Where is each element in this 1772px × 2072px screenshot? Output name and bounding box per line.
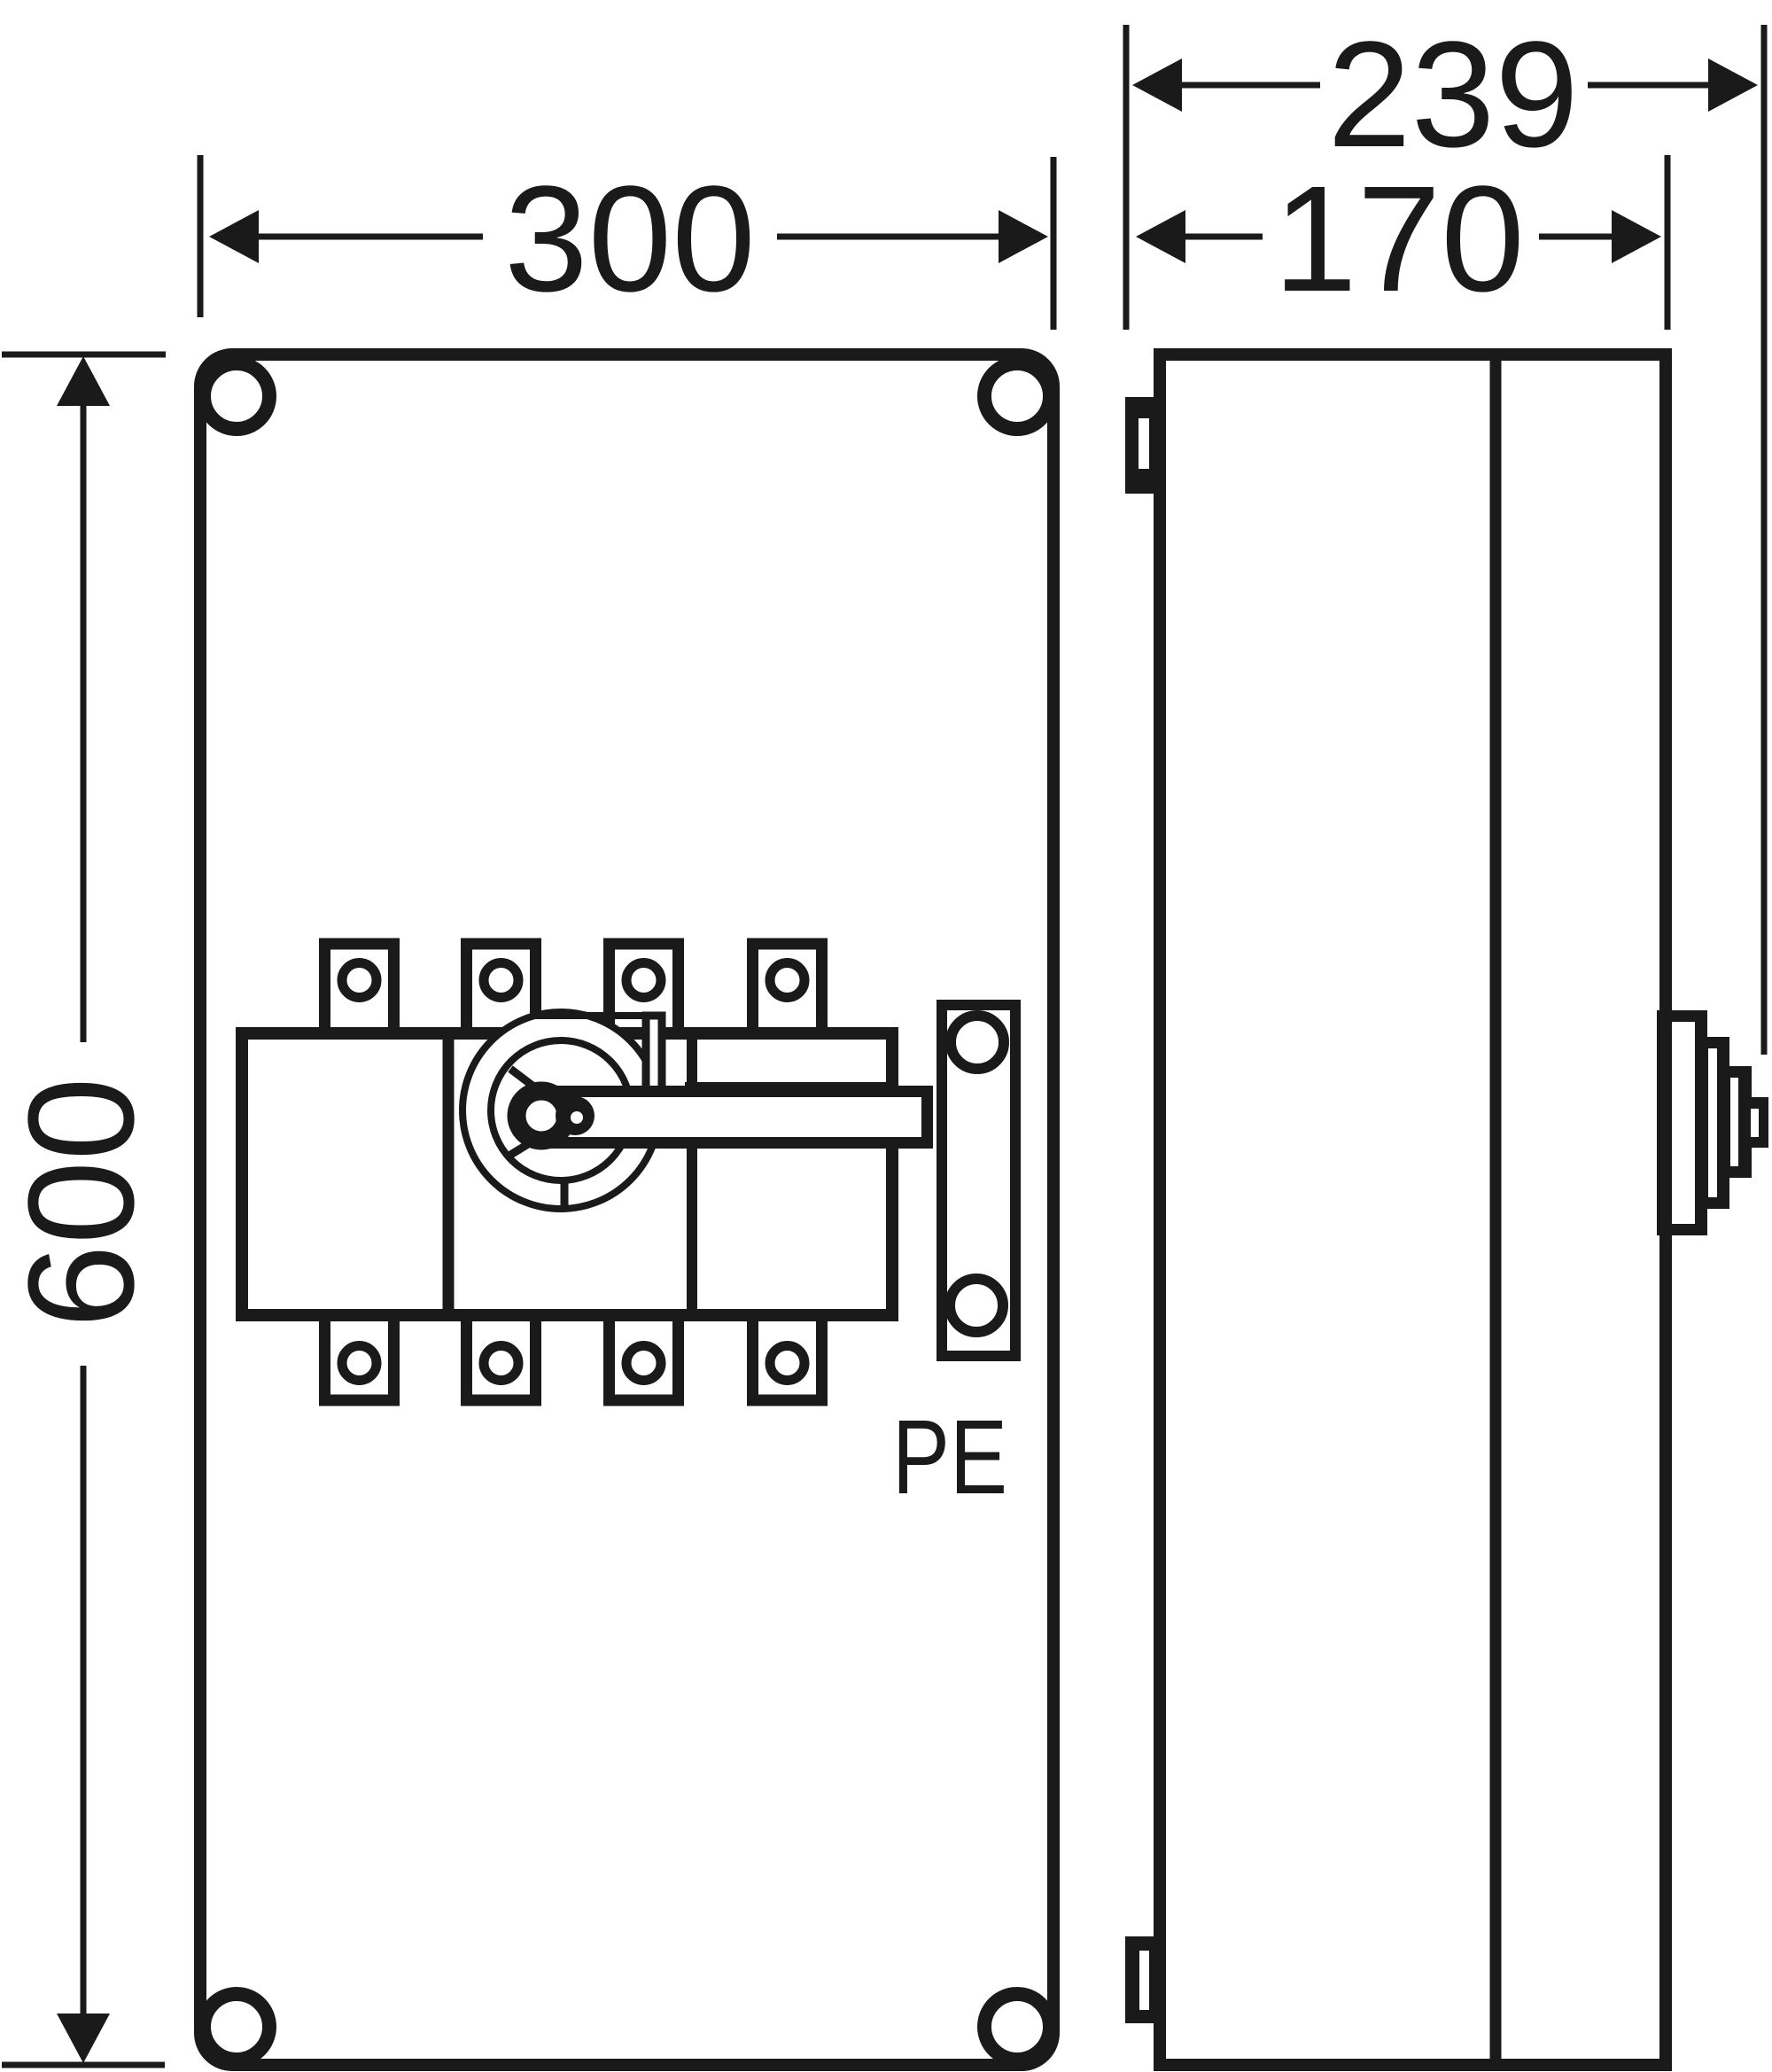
handle shaft step 2: [1695, 1037, 1729, 1209]
enclosure side view outline: [1160, 354, 1666, 2065]
dimension 239 right extension / wall line: [1761, 25, 1768, 1055]
dimension 239 left extension line: [1123, 25, 1130, 330]
terminal hole top 4: [770, 963, 804, 998]
dimension 300 line left segment: [255, 234, 483, 240]
dimension 600 line upper segment: [81, 401, 87, 1042]
switch terminal tab bottom 1: [325, 1315, 394, 1400]
svg-text:300: 300: [504, 155, 756, 323]
terminal hole bottom 3: [626, 1346, 661, 1381]
side view hinge bottom: [1125, 1936, 1160, 2023]
handle pointer rectangle: [646, 1016, 662, 1090]
dimension 300 left extension line: [198, 155, 204, 317]
terminal hole bottom 1: [342, 1346, 377, 1381]
handle sector line lower: [508, 1127, 556, 1157]
terminal hole bottom 4: [770, 1346, 804, 1381]
switch terminal tab top 1: [325, 944, 394, 1033]
svg-text:600: 600: [0, 1077, 166, 1328]
handle shaft step 1: [1657, 1010, 1707, 1235]
switch terminal tab bottom 2: [467, 1315, 536, 1400]
handle lever bar: [549, 1092, 928, 1143]
corner screw bottom-left: [204, 1994, 269, 2060]
svg-text:239: 239: [1327, 11, 1579, 179]
svg-text:PE: PE: [892, 1398, 1007, 1516]
switch terminal tab bottom 4: [753, 1315, 822, 1400]
handle bottom tick: [561, 1179, 569, 1211]
corner screw bottom-right: [984, 1994, 1050, 2060]
dimension 600 bottom extension line: [2, 2062, 165, 2068]
terminal hole top 3: [626, 963, 661, 998]
switch terminal tab top 4: [753, 944, 822, 1033]
side view hinge bottom slot: [1139, 1951, 1149, 2010]
PE terminal hole top: [951, 1016, 1004, 1069]
PE terminal hole bottom: [950, 1279, 1003, 1332]
dimension 170 line left segment: [1184, 234, 1263, 240]
rotary handle outer circle: [462, 1012, 659, 1209]
side view hinge top: [1125, 397, 1160, 494]
terminal hole top 1: [342, 963, 377, 998]
dimension 170 arrow right: [1612, 210, 1661, 263]
switch body strip line: [685, 1082, 892, 1093]
dimension 239 arrow left: [1132, 58, 1182, 112]
handle shaft step 4: [1745, 1097, 1768, 1148]
corner screw top-left: [204, 363, 269, 429]
svg-text:170: 170: [1273, 155, 1525, 323]
switch terminal tab bottom 3: [610, 1315, 679, 1400]
dimension 170 right extension line: [1665, 155, 1671, 330]
switch terminal tab top 2: [467, 944, 536, 1033]
dimension 600 line lower segment: [81, 1366, 87, 2019]
dimension 239 line left segment: [1178, 82, 1320, 89]
handle pivot dot: [556, 1096, 595, 1135]
dimension 600 arrow down: [57, 2014, 110, 2063]
handle sector line upper: [510, 1069, 558, 1105]
PE terminal block: [942, 1005, 1015, 1356]
terminal hole top 2: [484, 963, 518, 998]
side view door inner line: [1490, 361, 1502, 2059]
dimension 300 arrow left: [209, 210, 259, 263]
switch terminal tab top 3: [610, 944, 679, 1033]
switch body divider left: [443, 1040, 455, 1309]
dimension 600 arrow up: [57, 356, 110, 406]
handle pivot pinhole: [571, 1111, 583, 1124]
dimension 170 arrow left: [1136, 210, 1185, 263]
dimension 170 line right segment: [1539, 234, 1612, 240]
handle shaft step 3: [1722, 1066, 1752, 1178]
dimension 300 arrow right: [999, 210, 1048, 263]
dimension 600 top extension line: [2, 352, 166, 358]
rotary handle inner circle: [491, 1040, 631, 1180]
terminal hole bottom 2: [484, 1346, 518, 1381]
side view hinge top slot: [1139, 418, 1149, 469]
switch disconnector body: [242, 1033, 892, 1315]
dimension 239 line right segment: [1588, 82, 1715, 89]
enclosure front view outline: [200, 354, 1053, 2065]
dimension 239 arrow right: [1708, 58, 1758, 112]
switch body divider right: [687, 1040, 697, 1309]
corner screw top-right: [984, 363, 1050, 429]
handle top tangent line: [536, 1012, 664, 1019]
handle hub ring: [517, 1091, 566, 1141]
dimension 300 line right segment: [777, 234, 1002, 240]
dimension 300 right extension line: [1051, 157, 1057, 330]
